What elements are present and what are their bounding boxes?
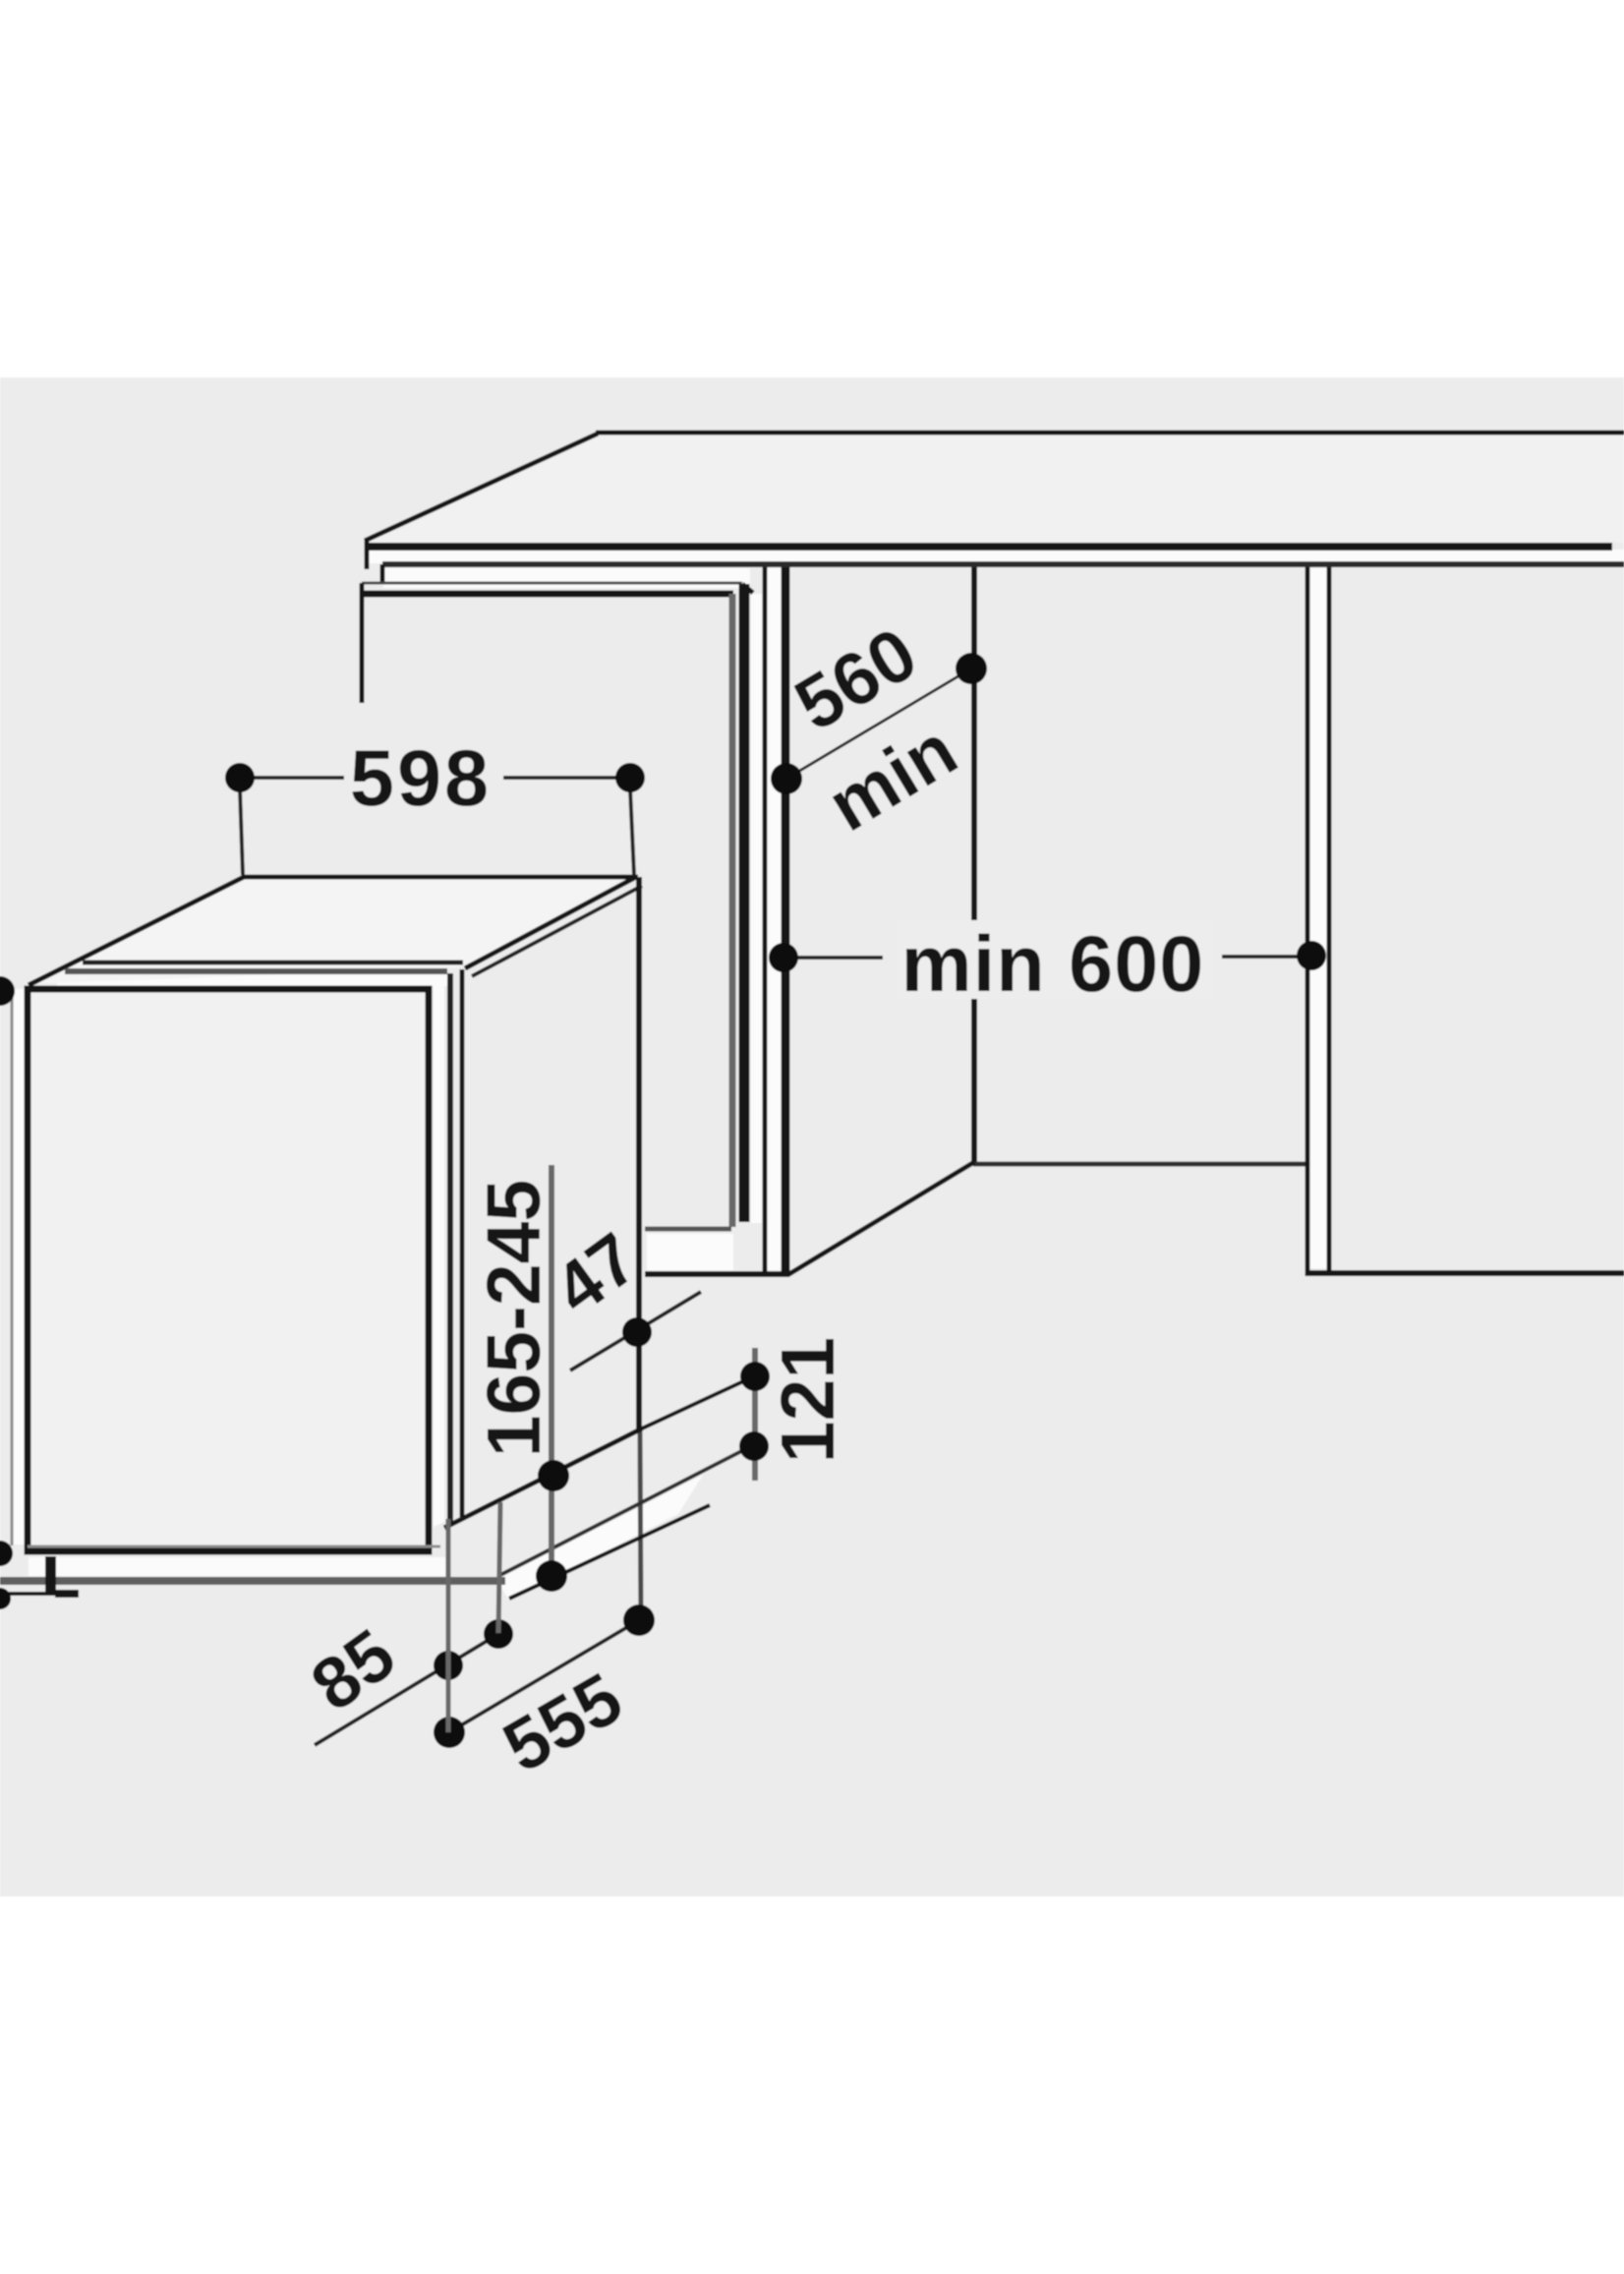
svg-text:165-245: 165-245: [472, 1180, 556, 1458]
svg-text:598: 598: [350, 734, 492, 823]
svg-text:121: 121: [766, 1337, 850, 1463]
svg-text:min 600: min 600: [901, 920, 1205, 1009]
